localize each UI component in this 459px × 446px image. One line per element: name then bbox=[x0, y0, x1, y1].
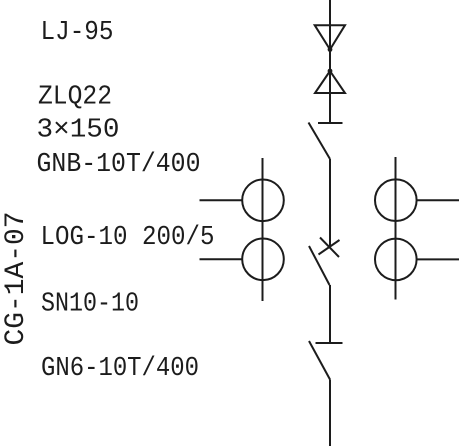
breaker QF X contact stroke 2 bbox=[319, 240, 340, 255]
svg-text:CG-1A-07: CG-1A-07 bbox=[1, 212, 32, 346]
disconnector QS2 blade bbox=[309, 341, 330, 380]
svg-text:LJ-95: LJ-95 bbox=[41, 17, 114, 47]
incoming overhead line arrow (LJ-95) bbox=[315, 25, 345, 49]
wire: outgoing bottom segment bbox=[329, 380, 331, 446]
node: junction dot at arrow apex bbox=[328, 47, 333, 52]
current transformer TA2b winding circle bbox=[375, 239, 417, 281]
wire: segment between QS1 and breaker bbox=[329, 159, 331, 247]
cable terminal head (ZLQ22 3x150) bbox=[315, 71, 345, 93]
current transformer TA1b winding circle bbox=[242, 238, 284, 280]
disconnector QS1 GNB-10T/400 : fixed contact bar bbox=[318, 122, 343, 124]
svg-text:GN6-10T/400: GN6-10T/400 bbox=[41, 353, 199, 383]
disconnector QS2 GN6-10T/400 : fixed contact bar bbox=[316, 342, 343, 344]
current transformer TA1 primary wire (left pair) bbox=[262, 158, 264, 301]
wire: TA2b secondary tap bbox=[417, 258, 459, 260]
current transformer TA2a winding circle bbox=[375, 179, 417, 221]
node: junction dot at cable head apex bbox=[328, 69, 333, 74]
wire: segment between breaker and QS2 bbox=[329, 285, 331, 343]
wire: incoming feeder top segment bbox=[329, 0, 331, 123]
svg-text:LOG-10 200/5: LOG-10 200/5 bbox=[41, 222, 215, 252]
wire: TA1a secondary tap bbox=[200, 199, 243, 201]
svg-text:GNB-10T/400: GNB-10T/400 bbox=[37, 149, 201, 179]
wire: TA2a secondary tap bbox=[417, 199, 459, 201]
current transformer TA1a winding circle bbox=[242, 180, 284, 222]
svg-text:ZLQ22: ZLQ22 bbox=[38, 82, 112, 112]
disconnector QS1 blade bbox=[309, 123, 331, 160]
breaker QF blade bbox=[309, 246, 330, 285]
svg-text:3×150: 3×150 bbox=[37, 115, 120, 145]
svg-text:SN10-10: SN10-10 bbox=[41, 289, 139, 319]
wire: TA1b secondary tap bbox=[200, 258, 243, 260]
breaker QF SN10-10 : X contact stroke 1 bbox=[320, 238, 339, 258]
current transformer TA2 primary wire (right pair) bbox=[395, 157, 397, 300]
